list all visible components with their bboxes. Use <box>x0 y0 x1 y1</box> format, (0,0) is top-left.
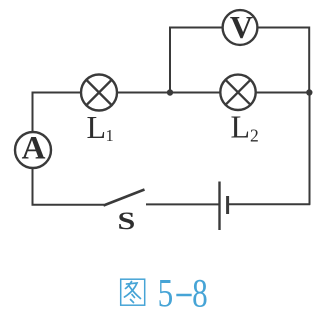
wire battery to right horizontal <box>229 203 310 205</box>
wire right vertical lower <box>309 93 311 205</box>
wire L1 to L2 horizontal <box>117 92 221 94</box>
switch S blade <box>104 190 145 206</box>
wire voltmeter branch left vertical <box>169 28 171 93</box>
svg-text:5: 5 <box>158 271 174 313</box>
wire top-left horizontal <box>32 92 82 94</box>
wire voltmeter branch left horizontal <box>169 27 223 29</box>
wire L2 to right horizontal <box>256 92 311 94</box>
wire switch to battery horizontal <box>146 203 219 205</box>
voltmeter V1 circle <box>223 10 258 45</box>
node junction right <box>306 89 312 95</box>
lamp L1 circle with cross <box>81 75 117 111</box>
caption character tu (figure) drawn as strokes <box>121 279 145 305</box>
ammeter A1 circle <box>15 132 51 168</box>
svg-text:V: V <box>230 9 253 45</box>
wire left vertical upper <box>32 92 34 133</box>
lamp L2 circle with cross <box>220 75 255 110</box>
svg-text:S: S <box>118 207 136 235</box>
caption dash <box>176 294 191 297</box>
node junction left (L2/voltmeter tap) <box>167 89 173 95</box>
svg-text:L2: L2 <box>231 109 259 146</box>
svg-text:L1: L1 <box>87 109 114 145</box>
wire bottom-left horizontal <box>32 204 105 206</box>
battery short plate (negative) <box>226 196 229 214</box>
wire right vertical upper <box>308 27 310 93</box>
wire left vertical lower <box>32 168 34 206</box>
svg-text:8: 8 <box>192 271 208 313</box>
wire voltmeter branch right horizontal <box>258 27 311 29</box>
battery long plate (positive) <box>218 182 220 231</box>
svg-text:A: A <box>22 131 46 167</box>
